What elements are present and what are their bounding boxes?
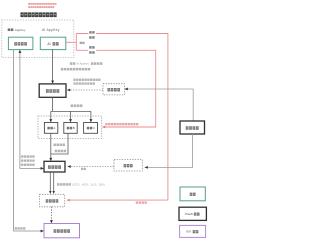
svg-text:AppKey: AppKey <box>15 28 26 32</box>
wire 模型管理 down split to 模型ABC <box>51 97 91 121</box>
arrowhead into 计算资源 right <box>124 88 127 91</box>
wire left 效果管理 to 租户服务 <box>20 52 42 169</box>
note 每个AI Appkey 对应一个工作空间 line1 <box>70 62 103 66</box>
note red 数据回流 <box>136 201 147 203</box>
note 模型参数 <box>53 144 64 147</box>
arrowhead into 效果管理 top <box>49 158 52 161</box>
label 语音合成 <box>88 45 96 54</box>
dashed wire 业务工程 down to 机器人服务 <box>50 207 52 221</box>
arrowhead twin left <box>49 191 51 194</box>
arrowhead into 机器人服务 top <box>50 220 53 223</box>
svg-text:PaaS: PaaS <box>185 212 193 216</box>
box 模型C <box>84 123 98 134</box>
dashed wire 计算资源 to 模型管理 <box>70 89 104 91</box>
wire AI服务 to red bracket <box>66 41 77 43</box>
red bracket vertical <box>75 34 77 51</box>
arrowhead into 效果管理 right <box>67 165 70 168</box>
note red annotation line1 <box>28 3 56 5</box>
arrowhead into 效果管理 left <box>41 167 44 170</box>
svg-text:AI Appkey: AI Appkey <box>76 62 89 66</box>
wire red 实时识别 to 业务工程 <box>69 34 168 201</box>
svg-text:AI AppKey: AI AppKey <box>42 28 60 32</box>
note 每个云租 3 lines <box>21 155 35 166</box>
wire red 语音合成 to 模型容器 <box>76 50 155 127</box>
arrowhead into 模型管理 right <box>67 89 70 92</box>
dashed wire 云小蜜 to 效果管理 调用 <box>70 166 114 168</box>
svg-text:A: A <box>53 126 55 130</box>
svg-text:B: B <box>73 126 75 130</box>
wire twin 效果管理 down to 业务工程 <box>50 172 53 192</box>
arrowhead into 模型管理 top <box>51 81 54 84</box>
note red 指定渠道进行下发模型 <box>105 123 138 125</box>
wire left 租户服务 to 机器人服务 <box>14 50 43 231</box>
svg-text:(CES, HDS, SLS, QM): (CES, HDS, SLS, QM) <box>72 183 105 187</box>
arrowhead red into 业务工程 <box>66 199 69 202</box>
legend box ISV 产品 <box>180 225 206 237</box>
note red annotation line2 <box>28 6 54 8</box>
svg-text:AI: AI <box>47 42 50 46</box>
box 业务工程 dashed <box>39 194 64 207</box>
note 服务接口类 <box>57 183 105 187</box>
dashed group box AppKey region <box>2 20 74 58</box>
box 模型A <box>44 123 57 134</box>
arrowhead into 模型B <box>69 119 72 122</box>
box 租户服务 <box>8 37 33 49</box>
wire 模型B down merge <box>51 133 68 154</box>
label 转接 <box>80 42 85 44</box>
wire AI服务 down to 模型管理 <box>52 50 54 82</box>
label AI AppKey <box>42 28 60 32</box>
note 模型生产 <box>71 104 83 107</box>
box 模型B <box>64 123 77 134</box>
note 每个工程对应 line1 <box>73 79 100 81</box>
box 云小蜜 dashed <box>114 160 142 172</box>
note 发布两阶段 line2 <box>73 82 95 84</box>
legend box 节点 <box>180 187 205 201</box>
note line2 <box>61 68 90 71</box>
legend box PaaS 租户 <box>179 207 206 220</box>
box 效果管理 <box>44 161 65 172</box>
arrowhead into 模型A <box>49 119 52 122</box>
box AI 服务 <box>40 37 66 49</box>
box 模型管理 <box>39 84 66 97</box>
wire 模型A down to 效果管理 <box>50 133 52 159</box>
arrowhead into 机器人服务 left <box>41 230 44 233</box>
arrowhead into 模型C <box>90 119 93 122</box>
box 机器人服务 purple <box>44 224 80 238</box>
label 节点 AppKey <box>8 28 26 32</box>
title 智能客服解决方案 <box>20 12 56 17</box>
box 资源管理 <box>180 121 205 134</box>
box 计算资源 dashed <box>103 84 124 95</box>
label 实时识别 <box>88 30 96 39</box>
arrowhead into 云小蜜 right <box>144 166 147 169</box>
label 标准版本 <box>15 227 26 229</box>
wire 资源管理 down to 云小蜜 <box>147 134 193 167</box>
dashed container 模型组 <box>38 116 102 139</box>
arrowhead red into model container <box>102 126 105 129</box>
arrowhead twin right <box>53 191 55 194</box>
label 调用 <box>81 168 86 170</box>
note 训练测试 <box>55 150 66 153</box>
wire 资源管理 to 计算资源 <box>127 89 193 121</box>
arrowhead up into 租户服务 bottom <box>19 50 22 53</box>
